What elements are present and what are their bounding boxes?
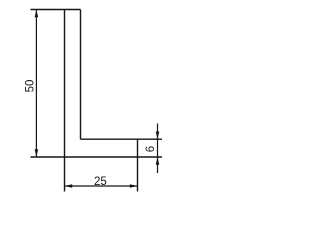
svg-text:25: 25 — [94, 176, 107, 188]
svg-text:6: 6 — [145, 146, 157, 152]
svg-text:50: 50 — [25, 80, 37, 93]
